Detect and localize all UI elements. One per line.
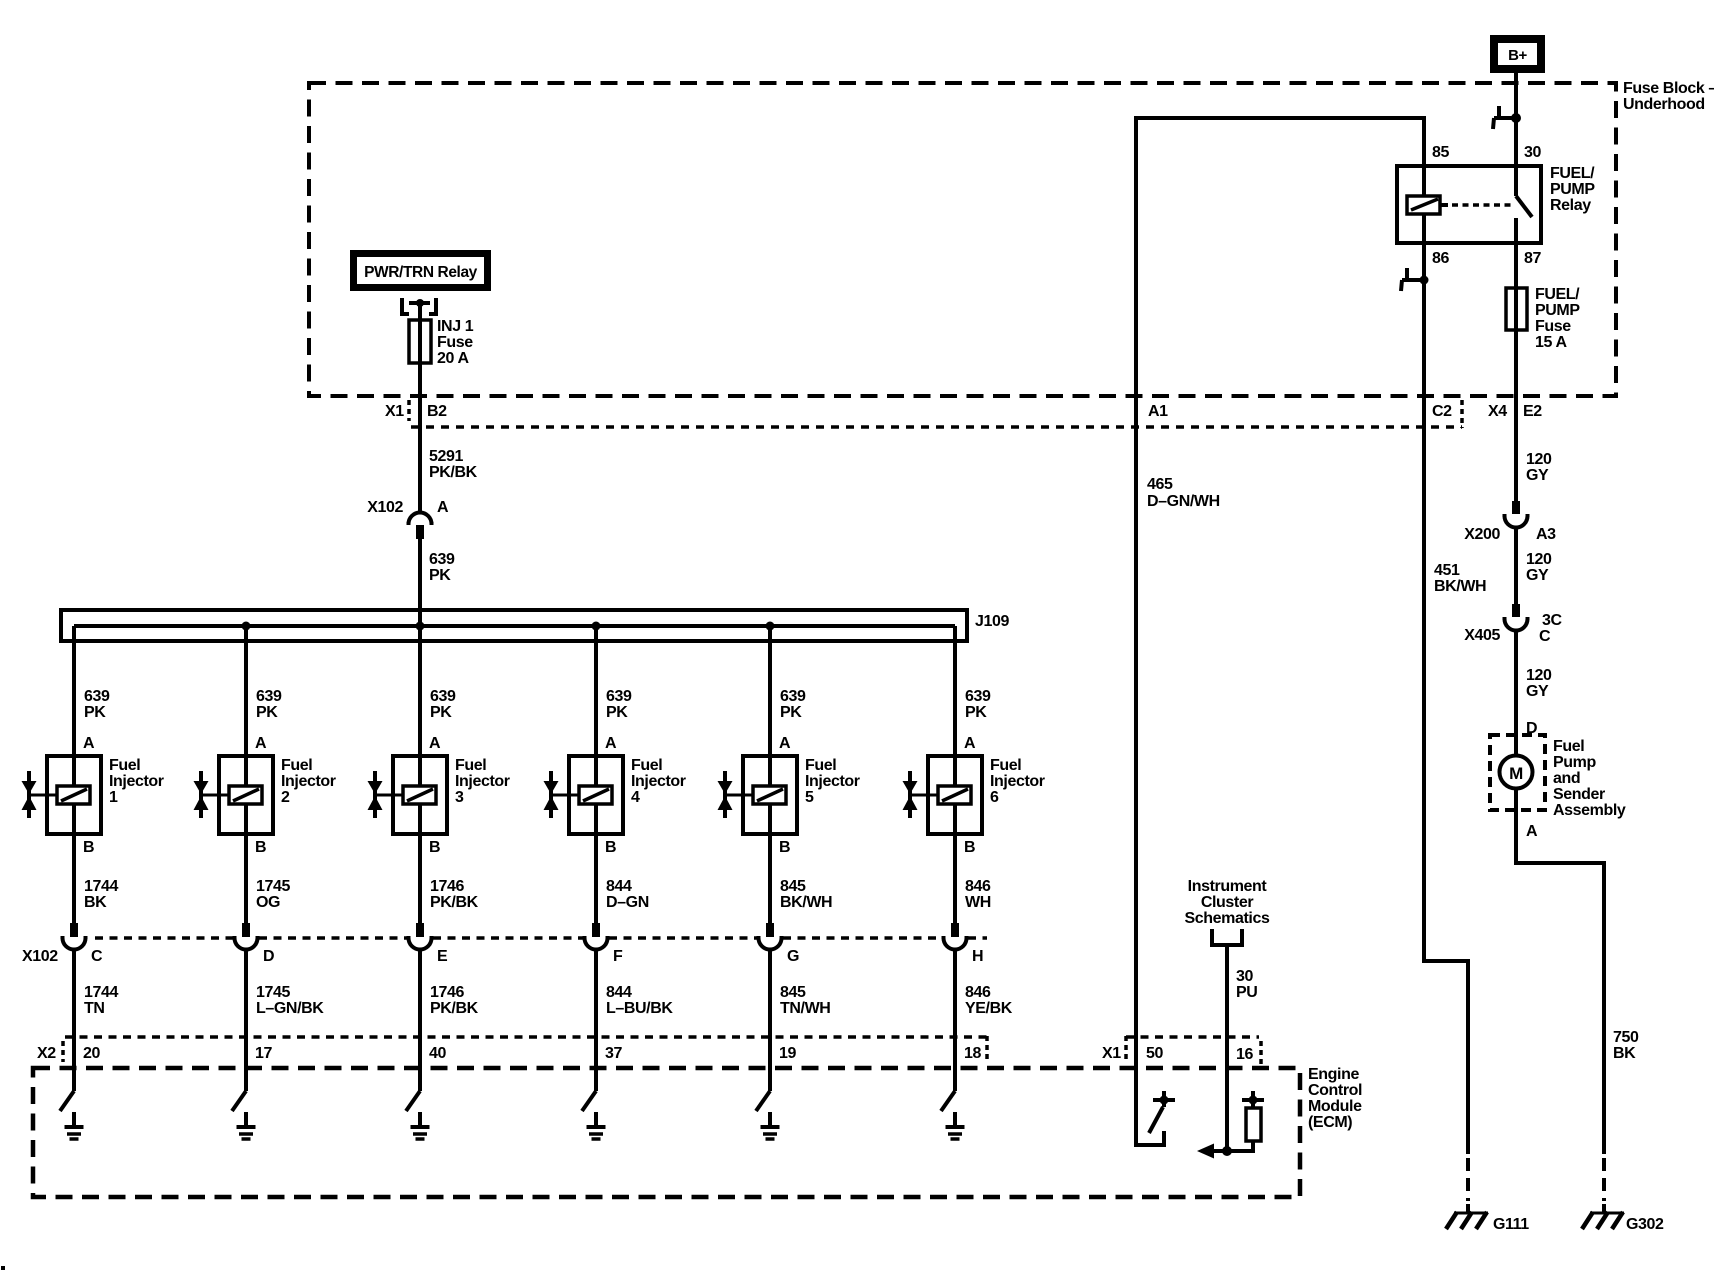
svg-text:PK: PK	[965, 704, 987, 721]
svg-text:PK: PK	[429, 567, 451, 584]
svg-text:B2: B2	[427, 403, 447, 420]
svg-text:Fuel: Fuel	[631, 757, 662, 774]
svg-text:BK: BK	[1613, 1045, 1636, 1062]
svg-text:(ECM): (ECM)	[1308, 1114, 1352, 1131]
svg-text:1: 1	[109, 789, 118, 806]
svg-text:D: D	[263, 948, 274, 965]
svg-text:Injector: Injector	[109, 773, 164, 790]
svg-text:E2: E2	[1523, 403, 1542, 420]
svg-text:PK: PK	[606, 704, 628, 721]
svg-text:87: 87	[1524, 250, 1541, 267]
svg-text:639: 639	[430, 688, 456, 705]
svg-text:A: A	[83, 735, 95, 752]
svg-text:750: 750	[1613, 1029, 1639, 1046]
svg-text:639: 639	[429, 551, 455, 568]
svg-text:844: 844	[606, 878, 632, 895]
svg-text:A: A	[255, 735, 267, 752]
svg-text:C: C	[91, 948, 103, 965]
svg-text:PK: PK	[430, 704, 452, 721]
svg-text:451: 451	[1434, 562, 1460, 579]
svg-text:PUMP: PUMP	[1535, 302, 1580, 319]
svg-text:G111: G111	[1493, 1216, 1529, 1233]
svg-text:4: 4	[631, 789, 640, 806]
svg-text:5291: 5291	[429, 448, 463, 465]
svg-text:19: 19	[779, 1045, 796, 1062]
svg-text:30: 30	[1524, 144, 1541, 161]
svg-text:639: 639	[965, 688, 991, 705]
svg-text:1745: 1745	[256, 878, 290, 895]
svg-text:F: F	[613, 948, 623, 965]
svg-text:GY: GY	[1526, 467, 1549, 484]
svg-text:G302: G302	[1626, 1216, 1664, 1233]
svg-text:85: 85	[1432, 144, 1449, 161]
svg-text:3: 3	[455, 789, 464, 806]
svg-text:6: 6	[990, 789, 999, 806]
svg-text:X200: X200	[1464, 526, 1500, 543]
svg-text:B+: B+	[1508, 47, 1527, 64]
svg-text:PWR/TRN Relay: PWR/TRN Relay	[364, 264, 478, 281]
svg-text:Fuel: Fuel	[281, 757, 312, 774]
svg-text:B: B	[255, 839, 266, 856]
svg-text:Relay: Relay	[1550, 197, 1591, 214]
svg-text:X405: X405	[1464, 627, 1500, 644]
svg-text:Fuse: Fuse	[1535, 318, 1571, 335]
svg-text:OG: OG	[256, 894, 280, 911]
svg-text:FUEL/: FUEL/	[1535, 286, 1580, 303]
svg-text:3C: 3C	[1542, 612, 1562, 629]
svg-text:Schematics: Schematics	[1185, 910, 1270, 927]
svg-text:Cluster: Cluster	[1201, 894, 1253, 911]
svg-text:845: 845	[780, 984, 806, 1001]
svg-text:Fuel: Fuel	[805, 757, 836, 774]
svg-text:G: G	[787, 948, 799, 965]
svg-text:A: A	[779, 735, 791, 752]
svg-text:E: E	[437, 948, 448, 965]
svg-text:X102: X102	[22, 948, 58, 965]
svg-text:Injector: Injector	[455, 773, 510, 790]
svg-text:37: 37	[605, 1045, 622, 1062]
svg-text:120: 120	[1526, 551, 1552, 568]
svg-text:B: B	[83, 839, 94, 856]
svg-text:A: A	[605, 735, 617, 752]
svg-text:Pump: Pump	[1553, 754, 1596, 771]
svg-text:GY: GY	[1526, 567, 1549, 584]
svg-text:BK/WH: BK/WH	[780, 894, 832, 911]
svg-text:Injector: Injector	[631, 773, 686, 790]
svg-text:B: B	[964, 839, 975, 856]
svg-text:FUEL/: FUEL/	[1550, 165, 1595, 182]
svg-text:C2: C2	[1432, 403, 1452, 420]
svg-text:120: 120	[1526, 451, 1552, 468]
svg-text:GY: GY	[1526, 683, 1549, 700]
svg-text:Underhood: Underhood	[1623, 96, 1705, 113]
svg-text:PK/BK: PK/BK	[430, 894, 479, 911]
svg-text:B: B	[605, 839, 616, 856]
svg-text:120: 120	[1526, 667, 1552, 684]
svg-text:PK/BK: PK/BK	[430, 1000, 479, 1017]
svg-text:A: A	[964, 735, 976, 752]
svg-text:1746: 1746	[430, 984, 464, 1001]
svg-text:X4: X4	[1488, 403, 1507, 420]
svg-text:Control: Control	[1308, 1082, 1362, 1099]
svg-text:X2: X2	[37, 1045, 56, 1062]
svg-text:Engine: Engine	[1308, 1066, 1359, 1083]
svg-text:X1: X1	[1102, 1045, 1121, 1062]
svg-text:PK: PK	[84, 704, 106, 721]
svg-text:TN: TN	[84, 1000, 105, 1017]
svg-text:50: 50	[1146, 1045, 1163, 1062]
svg-text:2: 2	[281, 789, 290, 806]
svg-text:L–BU/BK: L–BU/BK	[606, 1000, 673, 1017]
svg-text:Injector: Injector	[990, 773, 1045, 790]
svg-text:Instrument: Instrument	[1188, 878, 1268, 895]
svg-text:B: B	[779, 839, 790, 856]
svg-text:INJ 1: INJ 1	[437, 318, 474, 335]
svg-text:Fuel: Fuel	[109, 757, 140, 774]
svg-text:1744: 1744	[84, 878, 118, 895]
svg-text:17: 17	[255, 1045, 272, 1062]
svg-text:639: 639	[606, 688, 632, 705]
svg-text:Fuel: Fuel	[1553, 738, 1584, 755]
svg-text:J109: J109	[975, 613, 1009, 630]
svg-text:5: 5	[805, 789, 814, 806]
svg-text:X1: X1	[385, 403, 404, 420]
svg-text:845: 845	[780, 878, 806, 895]
svg-text:PUMP: PUMP	[1550, 181, 1595, 198]
svg-text:A3: A3	[1536, 526, 1556, 543]
svg-text:1745: 1745	[256, 984, 290, 1001]
svg-text:639: 639	[256, 688, 282, 705]
svg-text:A: A	[437, 499, 449, 516]
svg-text:1746: 1746	[430, 878, 464, 895]
svg-text:30: 30	[1236, 968, 1253, 985]
svg-text:B: B	[429, 839, 440, 856]
svg-text:and: and	[1553, 770, 1580, 787]
svg-text:15 A: 15 A	[1535, 334, 1567, 351]
svg-text:H: H	[972, 948, 983, 965]
svg-text:D–GN: D–GN	[606, 894, 649, 911]
svg-text:1744: 1744	[84, 984, 118, 1001]
svg-text:PK: PK	[256, 704, 278, 721]
svg-text:Module: Module	[1308, 1098, 1362, 1115]
svg-text:465: 465	[1147, 476, 1173, 493]
svg-text:Fuel: Fuel	[990, 757, 1021, 774]
svg-text:A: A	[429, 735, 441, 752]
svg-text:18: 18	[964, 1045, 981, 1062]
svg-text:Injector: Injector	[805, 773, 860, 790]
svg-text:86: 86	[1432, 250, 1449, 267]
svg-text:Sender: Sender	[1553, 786, 1605, 803]
svg-text:BK/WH: BK/WH	[1434, 578, 1486, 595]
svg-text:D–GN/WH: D–GN/WH	[1147, 493, 1220, 510]
svg-text:X102: X102	[367, 499, 403, 516]
svg-text:20 A: 20 A	[437, 350, 469, 367]
svg-text:40: 40	[429, 1045, 446, 1062]
svg-text:A: A	[1526, 823, 1538, 840]
svg-text:BK: BK	[84, 894, 107, 911]
svg-text:844: 844	[606, 984, 632, 1001]
svg-text:PK/BK: PK/BK	[429, 464, 478, 481]
svg-text:D: D	[1526, 720, 1537, 737]
svg-text:639: 639	[84, 688, 110, 705]
svg-text:846: 846	[965, 984, 991, 1001]
svg-text:PU: PU	[1236, 984, 1257, 1001]
svg-text:Fuse: Fuse	[437, 334, 473, 351]
svg-text:16: 16	[1236, 1046, 1253, 1063]
svg-text:L–GN/BK: L–GN/BK	[256, 1000, 324, 1017]
svg-text:Fuel: Fuel	[455, 757, 486, 774]
svg-text:A1: A1	[1148, 403, 1168, 420]
svg-text:846: 846	[965, 878, 991, 895]
svg-text:PK: PK	[780, 704, 802, 721]
svg-text:C: C	[1539, 628, 1551, 645]
svg-text:WH: WH	[965, 894, 991, 911]
svg-text:TN/WH: TN/WH	[780, 1000, 830, 1017]
svg-text:M: M	[1509, 764, 1523, 783]
svg-text:Injector: Injector	[281, 773, 336, 790]
svg-text:20: 20	[83, 1045, 100, 1062]
svg-text:Assembly: Assembly	[1553, 802, 1626, 819]
svg-text:639: 639	[780, 688, 806, 705]
svg-text:YE/BK: YE/BK	[965, 1000, 1013, 1017]
svg-text:Fuse Block –: Fuse Block –	[1623, 80, 1714, 97]
